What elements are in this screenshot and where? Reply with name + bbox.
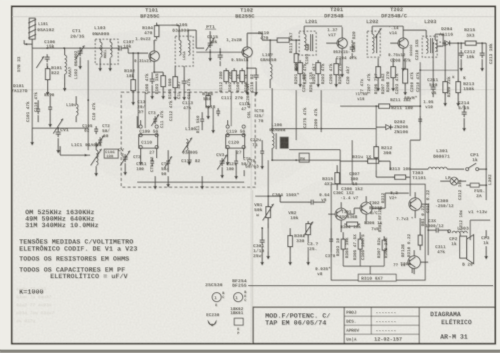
trimmer CT5 symbol <box>151 158 153 161</box>
resistor R107 <box>232 71 237 82</box>
title block outer box <box>253 307 495 344</box>
wire L203 out <box>437 45 443 47</box>
title block divider v3 <box>370 307 372 334</box>
title block row line 3 <box>344 333 419 335</box>
wire y196 feed <box>255 195 262 197</box>
wire top rail left segment <box>65 24 157 26</box>
capacitor C211 <box>432 84 434 87</box>
wire left mid links <box>64 90 66 100</box>
capacitor C116 <box>255 72 257 75</box>
resistor R215 <box>465 41 476 45</box>
wire R302 <box>289 228 291 236</box>
capacitor C10b <box>37 106 39 109</box>
wire mid vertical 2 <box>320 90 322 132</box>
transistor T302 <box>360 202 372 214</box>
coil L102 <box>65 55 67 59</box>
wire long vertical x88 <box>87 60 89 100</box>
wire right rail <box>452 42 463 44</box>
wire x420 junctions <box>419 69 421 71</box>
trimmer CT1 <box>79 48 81 51</box>
wire bottom rail long <box>248 285 493 287</box>
resistor R211 <box>379 104 390 108</box>
capacitor C301 <box>261 237 263 240</box>
capacitor C10c <box>151 76 153 79</box>
wire R101 bottom <box>47 82 49 88</box>
shade blotch 2 <box>260 15 460 105</box>
trimmer CT3 <box>154 116 156 119</box>
wire main left rail <box>32 47 117 49</box>
wire d202 <box>376 126 383 128</box>
resistor R213 <box>456 82 461 93</box>
diode D202 <box>386 125 391 130</box>
capacitor C304 <box>308 201 311 203</box>
capacitor C114 <box>183 78 185 81</box>
wire r212 <box>375 158 377 171</box>
wire tuner bottom row <box>137 181 244 183</box>
wire fuse <box>466 184 470 186</box>
trimmer C108 100 <box>104 149 118 158</box>
wire audio stubs to rail <box>267 223 269 228</box>
resistor R310v <box>418 235 422 245</box>
resistor R208 <box>391 67 396 78</box>
wire C106 gnd <box>46 63 48 68</box>
padder module C109 C110 box <box>139 135 158 149</box>
wire det secondary <box>419 62 421 115</box>
coil L107 <box>270 64 272 68</box>
wire tuner internals <box>227 149 229 159</box>
fuse FUS <box>470 183 479 187</box>
scan artifact line horizontal <box>12 16 494 18</box>
lamp LP <box>450 177 458 185</box>
wire y106 left ext <box>340 105 376 107</box>
tuner section dashed box <box>121 92 255 187</box>
resistor R201 <box>298 63 303 74</box>
wire left vertical drop <box>31 48 33 128</box>
wire VR2 <box>307 221 309 224</box>
trimmer CT4 symbol <box>167 158 169 161</box>
wire r313 <box>375 170 377 177</box>
shade blotch 3 <box>90 105 310 195</box>
resistor R202 <box>316 63 321 74</box>
wire x420 to audio <box>419 115 421 140</box>
wire T201 collector bus <box>304 25 342 27</box>
trimmer C214 <box>463 109 465 112</box>
resistor R101 <box>45 69 50 80</box>
pinout circle 2 <box>233 292 242 301</box>
wire x340 drop <box>339 58 341 64</box>
wire L203 feeds <box>403 29 426 31</box>
resistor R104 <box>154 26 159 37</box>
wire C304 <box>280 201 309 203</box>
wire audio out cap <box>428 229 433 231</box>
resistor R109 <box>240 71 245 82</box>
resistor R207 <box>376 67 381 78</box>
resistor R105v <box>173 77 178 88</box>
wire CP1 right <box>479 168 487 170</box>
wire audio couple <box>347 213 354 215</box>
capacitor C314 <box>433 229 436 231</box>
wire CF3 <box>485 230 487 238</box>
wire c108 <box>60 154 90 156</box>
resistor R205 <box>334 64 339 75</box>
wire L103 out <box>109 58 111 64</box>
resistor R315 <box>335 173 340 184</box>
capacitor C214b symbol <box>419 116 421 119</box>
transistor T301 <box>335 208 347 220</box>
wire R110 path <box>261 33 263 40</box>
wire CV1 <box>57 128 59 130</box>
wire T102 collector top <box>246 33 248 40</box>
wire audio bottom stubs <box>307 247 309 258</box>
wire bus T101 collector <box>153 40 155 44</box>
speaker <box>460 236 467 258</box>
wire T303 collector stub <box>415 188 417 193</box>
antenna coupling arrow <box>24 43 32 45</box>
transistor T303 out top <box>409 198 422 211</box>
coil stub left <box>76 104 78 108</box>
wire emitter junction <box>154 71 163 73</box>
wire audio box top stub <box>351 170 353 184</box>
coil L106 var <box>186 139 188 143</box>
wire C301 <box>261 228 263 238</box>
capacitor C115 <box>219 52 221 55</box>
wire y140 link <box>340 139 376 141</box>
capacitor C106 <box>46 54 48 57</box>
wire tuner top feeds <box>144 92 146 128</box>
resistor R209 <box>443 82 448 93</box>
capacitor C308b <box>330 236 332 239</box>
audio stage box <box>331 184 425 280</box>
wire R314 <box>340 160 368 162</box>
wire t201 em gnd <box>341 58 343 70</box>
variable cap CV3 <box>217 155 227 170</box>
diode D204 <box>445 41 450 46</box>
variable cap CV1 <box>53 119 63 134</box>
wire tuner col x213 <box>212 108 214 126</box>
capacitor C212 <box>460 50 462 53</box>
variable cap CV2 <box>120 151 130 166</box>
wire right col x445 <box>444 43 446 60</box>
capacitor C121b <box>235 158 237 161</box>
resistor R304 <box>347 222 358 226</box>
title block divider v2 <box>418 307 420 344</box>
transformer L203 box <box>422 36 437 57</box>
wire L303 <box>441 229 448 231</box>
wire left col bottom <box>31 128 33 138</box>
resistor R302 <box>288 236 293 247</box>
transistor T201 <box>337 38 347 48</box>
capacitor C105 <box>95 126 97 129</box>
capacitor C206 <box>351 44 353 47</box>
wire inter stage <box>195 30 197 48</box>
wire T202 collector bus <box>372 25 403 27</box>
wire r211 <box>376 105 379 107</box>
trimmer PT1 <box>209 40 211 43</box>
wire R102 <box>132 53 134 80</box>
transistor T304 out bottom <box>408 256 421 269</box>
resistor R212 <box>374 147 379 158</box>
wire audio rail drops <box>261 196 263 228</box>
resistor R208b <box>403 69 408 83</box>
wire mid rail y128 <box>272 128 376 130</box>
coil L301 <box>428 167 432 169</box>
title block divider v1 <box>343 307 345 344</box>
coil L104 arrow <box>96 150 98 154</box>
padder module C119 C120 box <box>226 135 245 149</box>
wire x403 drop <box>402 58 404 64</box>
antenna L101 ferrite rod <box>29 18 35 39</box>
wire right col x433 top <box>432 43 434 60</box>
scan fold vertical <box>250 7 252 343</box>
coil L106b <box>272 133 274 137</box>
resistor R305 <box>341 239 345 249</box>
wire audio out node <box>421 203 428 205</box>
switch CP1 <box>466 168 469 171</box>
scan shadow bottom edge <box>0 350 500 352</box>
scan artifact line horizontal 2 <box>12 89 494 91</box>
shade blotch 4 <box>280 170 480 270</box>
pinout pkg 1 <box>208 321 216 325</box>
wire mid vertical 1 <box>295 90 297 140</box>
capacitor C117b <box>201 116 203 119</box>
transformer L103 box <box>95 39 118 64</box>
wire y128 right segment <box>255 195 260 197</box>
label cp2 sw <box>448 230 451 233</box>
wire tuner bottom stubs <box>154 176 156 182</box>
capacitor C111b <box>49 104 51 107</box>
resistor R311 <box>382 240 386 250</box>
resistor R106 <box>206 96 211 107</box>
resistor R112v <box>224 71 229 82</box>
trimmer CT2 <box>99 137 101 140</box>
wire speaker top <box>469 220 471 240</box>
coil L303 <box>452 231 456 233</box>
wire long vertical x138 <box>137 53 139 128</box>
wire padder leads <box>140 149 142 159</box>
shade blotch 1 <box>60 30 240 110</box>
resistor R110 <box>277 38 289 42</box>
volume pot VR1 <box>266 207 271 218</box>
wire audio top feeds <box>351 140 353 160</box>
transformer L201 box <box>299 31 316 55</box>
wire mid bus y33 <box>262 32 270 34</box>
wire T102 emitter <box>247 67 256 69</box>
wire x168 stub <box>167 150 169 158</box>
wire CT1 leads <box>79 48 81 49</box>
transistor T102 <box>242 47 252 57</box>
resistor R103b <box>161 76 166 87</box>
wire vr1 bottom <box>267 228 269 252</box>
small box PNF <box>299 153 309 162</box>
wire C211 <box>432 60 434 85</box>
title block row line 2 <box>344 324 419 326</box>
diode D101 arrow <box>36 56 44 68</box>
resistor R102 <box>131 80 136 91</box>
wire L301 <box>410 168 428 170</box>
wire T102 base feed <box>196 51 242 53</box>
transformer L105 box <box>175 36 193 66</box>
wire tuner verticals <box>124 163 126 168</box>
resistor R313 <box>395 175 406 179</box>
wire R104 top bus <box>156 23 158 26</box>
resistor R111v <box>294 54 298 63</box>
wire C212 <box>460 43 462 49</box>
transistor T202 <box>398 38 408 48</box>
pinout circle 1 <box>212 292 221 301</box>
wire vol feed <box>255 195 268 197</box>
wire R213 <box>457 60 459 82</box>
pinout pkg 2 <box>234 318 243 325</box>
wire L105 top leads <box>171 24 179 26</box>
audio box R310 notch <box>358 274 396 281</box>
resistor R314 <box>368 159 379 163</box>
wire lamp <box>440 180 450 182</box>
capacitor C118b <box>217 108 219 111</box>
wire C107 to T101 base <box>123 47 128 49</box>
resistor R308 <box>358 239 362 249</box>
title block row line 1 <box>344 315 419 317</box>
transistor T101 <box>149 51 159 61</box>
capacitor C107 series <box>116 47 119 49</box>
wire VR1 <box>267 196 269 207</box>
capacitor C221 <box>261 148 263 151</box>
pot VR2 <box>306 224 311 235</box>
wire tuner col x137 <box>136 116 138 128</box>
transformer L202 box <box>367 31 380 57</box>
wire mid rail y160 <box>272 159 340 161</box>
